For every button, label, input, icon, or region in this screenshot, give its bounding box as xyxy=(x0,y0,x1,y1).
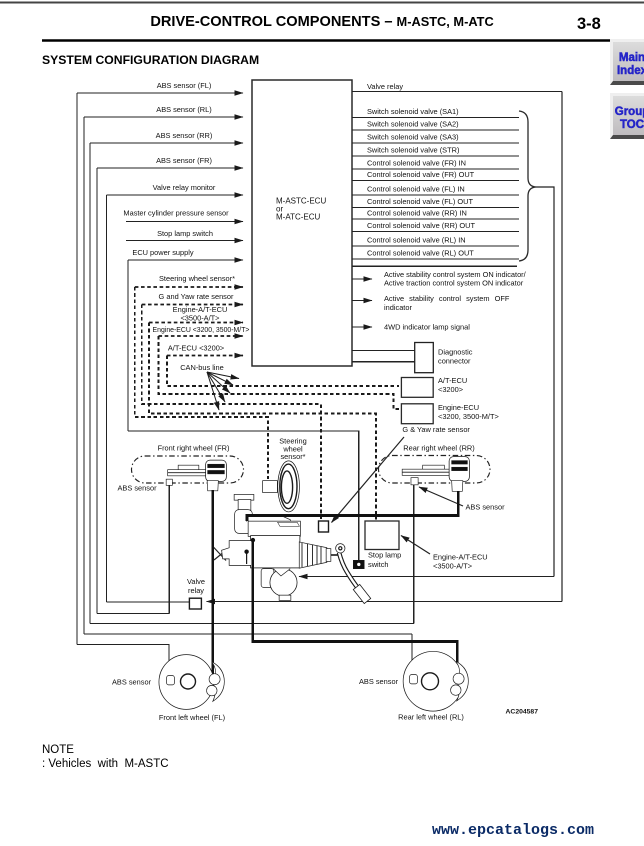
svg-text:Front right wheel (FR): Front right wheel (FR) xyxy=(158,444,230,453)
svg-text:ABS sensor (FL): ABS sensor (FL) xyxy=(157,81,212,90)
svg-text:<3500-A/T>: <3500-A/T> xyxy=(180,314,219,323)
svg-text:<3200>: <3200> xyxy=(438,385,463,394)
svg-text:Valve relay: Valve relay xyxy=(367,82,403,91)
svg-text:G and Yaw rate sensor: G and Yaw rate sensor xyxy=(159,292,234,301)
svg-text:Active traction control system: Active traction control system ON indica… xyxy=(384,279,524,288)
svg-text:ABS sensor: ABS sensor xyxy=(118,484,158,493)
svg-text:Master cylinder pressure senso: Master cylinder pressure sensor xyxy=(123,209,229,218)
svg-text:G & Yaw rate sensor: G & Yaw rate sensor xyxy=(402,425,470,434)
svg-text:ABS sensor: ABS sensor xyxy=(112,678,152,687)
svg-text:ABS sensor: ABS sensor xyxy=(359,677,399,686)
svg-text:sensor*: sensor* xyxy=(280,452,305,461)
svg-text:Diagnostic: Diagnostic xyxy=(438,348,473,357)
svg-text:Control solenoid valve (FR) OU: Control solenoid valve (FR) OUT xyxy=(367,170,475,179)
svg-text:Control solenoid valve (RR) IN: Control solenoid valve (RR) IN xyxy=(367,209,467,218)
svg-text:ABS sensor (FR): ABS sensor (FR) xyxy=(156,156,212,165)
svg-text:<3200, 3500-M/T>: <3200, 3500-M/T> xyxy=(438,412,499,421)
svg-text:ABS sensor: ABS sensor xyxy=(466,503,506,512)
svg-text:<3500-A/T>: <3500-A/T> xyxy=(433,562,472,571)
svg-text:Stop lamp switch: Stop lamp switch xyxy=(157,229,213,238)
svg-text:switch: switch xyxy=(368,560,389,569)
svg-text:M-ASTC-ECU: M-ASTC-ECU xyxy=(276,197,326,206)
svg-text:Switch solenoid valve (SA2): Switch solenoid valve (SA2) xyxy=(367,120,459,129)
svg-text:CAN-bus line: CAN-bus line xyxy=(180,363,224,372)
svg-text:M-ATC-ECU: M-ATC-ECU xyxy=(276,213,321,222)
svg-text:A/T-ECU: A/T-ECU xyxy=(438,376,467,385)
svg-text:Valve: Valve xyxy=(187,577,205,586)
svg-text:Control solenoid valve (FR) IN: Control solenoid valve (FR) IN xyxy=(367,159,466,168)
svg-text:relay: relay xyxy=(188,586,204,595)
svg-text:AC204587: AC204587 xyxy=(506,709,539,716)
svg-text:Valve relay monitor: Valve relay monitor xyxy=(153,183,216,192)
svg-text:Front left wheel (FL): Front left wheel (FL) xyxy=(159,713,225,722)
svg-text:Steering wheel sensor*: Steering wheel sensor* xyxy=(159,274,235,283)
svg-text:Switch solenoid valve (SA3): Switch solenoid valve (SA3) xyxy=(367,133,459,142)
svg-text:Engine-ECU: Engine-ECU xyxy=(438,403,479,412)
svg-text:Rear right wheel (RR): Rear right wheel (RR) xyxy=(403,444,474,453)
svg-text:Control solenoid valve (RR) OU: Control solenoid valve (RR) OUT xyxy=(367,221,476,230)
svg-text:Control solenoid valve (RL) IN: Control solenoid valve (RL) IN xyxy=(367,236,466,245)
svg-text:ECU power supply: ECU power supply xyxy=(132,248,194,257)
svg-text:Control solenoid valve (FL) OU: Control solenoid valve (FL) OUT xyxy=(367,197,473,206)
svg-text:4WD indicator lamp signal: 4WD indicator lamp signal xyxy=(384,323,470,332)
svg-text:ABS sensor (RR): ABS sensor (RR) xyxy=(156,131,213,140)
svg-text:Switch solenoid valve (SA1): Switch solenoid valve (SA1) xyxy=(367,107,459,116)
svg-text:Switch solenoid valve (STR): Switch solenoid valve (STR) xyxy=(367,146,459,155)
svg-text:Stop lamp: Stop lamp xyxy=(368,551,401,560)
svg-text:Engine-A/T-ECU: Engine-A/T-ECU xyxy=(433,553,488,562)
svg-text:Rear left wheel (RL): Rear left wheel (RL) xyxy=(398,713,464,722)
svg-text:Control solenoid valve (FL) IN: Control solenoid valve (FL) IN xyxy=(367,185,465,194)
svg-text:Control solenoid valve (RL) OU: Control solenoid valve (RL) OUT xyxy=(367,249,474,258)
svg-text:indicator: indicator xyxy=(384,303,412,312)
svg-text:ABS sensor (RL): ABS sensor (RL) xyxy=(156,105,211,114)
svg-text:Engine-ECU <3200, 3500-M/T>: Engine-ECU <3200, 3500-M/T> xyxy=(153,327,250,334)
svg-text:Active stability control syste: Active stability control system OFF xyxy=(384,294,510,303)
svg-text:connector: connector xyxy=(438,357,471,366)
svg-text:A/T-ECU <3200>: A/T-ECU <3200> xyxy=(168,344,224,353)
